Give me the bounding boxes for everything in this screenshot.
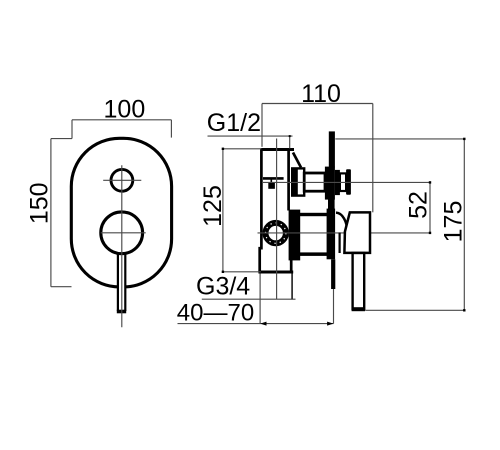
handle connector arc piece — [336, 213, 347, 233]
inlet axis centerline — [258, 232, 431, 234]
G1/2 leader drop to fitting — [289, 136, 291, 148]
vertical centerline of front view — [121, 165, 123, 327]
flange B at wall plate (merged with plate) — [325, 167, 335, 200]
handle block — [344, 212, 370, 253]
G3/4 inlet knurled ring — [266, 223, 286, 243]
diverter small circle — [111, 169, 133, 191]
svg-text:110: 110 — [301, 80, 341, 108]
svg-text:125: 125 — [199, 185, 227, 227]
G1/2 outlet pipe — [304, 173, 325, 191]
svg-text:G1/2: G1/2 — [207, 109, 261, 137]
body lower-right edge — [290, 256, 293, 273]
handle lever bottom cap — [352, 307, 365, 311]
handle lever bar (side view) — [353, 253, 365, 309]
outlet end cap — [346, 169, 351, 195]
outlet nut right of plate — [335, 170, 340, 195]
wall plate lower part — [331, 259, 335, 289]
wall plate upper part — [329, 131, 335, 167]
wall plate between fitting and cartridge — [328, 199, 335, 209]
cartridge bottom arm to plate — [299, 252, 328, 256]
G1/2 label underline leader — [208, 135, 293, 137]
dimension 150 lines — [51, 139, 72, 287]
body top edge — [261, 148, 294, 151]
handle connector neck line — [339, 233, 341, 254]
cartridge big circle — [101, 212, 143, 254]
body bottom edge — [258, 271, 293, 274]
stop screw detail inside body — [263, 178, 284, 188]
dimension 125 lines — [223, 149, 261, 272]
dimension 110 lines — [262, 104, 373, 213]
front plate oval outline — [71, 138, 171, 287]
dimension 52 line — [429, 182, 431, 233]
cartridge top arm to plate — [299, 213, 328, 216]
dimension 100 lines — [51, 120, 171, 139]
svg-text:G3/4: G3/4 — [196, 273, 250, 301]
svg-text:175: 175 — [439, 201, 467, 243]
svg-text:40—70: 40—70 — [177, 299, 254, 326]
G3/4 leader vertical to body — [291, 274, 293, 300]
body right edge — [287, 150, 290, 211]
G1/2 outlet flange A — [292, 168, 304, 195]
horizontal centerline small circle — [103, 179, 141, 181]
wall plate wide middle part — [327, 209, 336, 260]
fitting axis centerline — [262, 181, 430, 183]
dimension 40-70 lines — [178, 274, 334, 324]
G3/4 label underline leader — [202, 298, 296, 300]
svg-text:100: 100 — [104, 95, 146, 123]
inlet vertical centerline — [276, 139, 278, 300]
cartridge protrusion (black) — [289, 210, 301, 261]
svg-text:150: 150 — [26, 182, 54, 224]
horizontal centerline big circle — [101, 232, 146, 234]
dimension 40-70 arrowheads — [260, 322, 266, 326]
body top-right chamfer — [293, 153, 301, 168]
lever (front view) white bar over oval — [117, 252, 126, 313]
svg-text:52: 52 — [404, 191, 432, 219]
outlet pipe right of plate — [340, 173, 346, 191]
dimension 175 lines — [335, 139, 464, 310]
body left edge with bottom step — [260, 148, 262, 272]
